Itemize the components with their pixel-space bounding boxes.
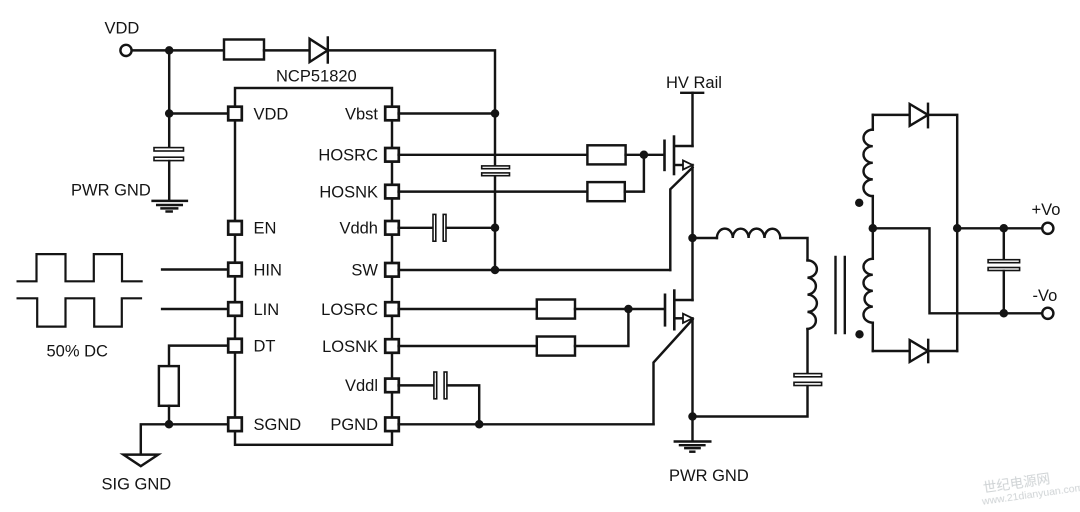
op-amp U1 NCP51820 IC body — [235, 68, 392, 445]
wire top winding to diode — [873, 114, 910, 116]
svg-text:PWR GND: PWR GND — [669, 467, 749, 485]
transformer T1 secondary top winding — [863, 115, 872, 228]
pin HOSNK (right) — [319, 183, 398, 201]
pin SGND (left) — [228, 416, 301, 434]
pin LIN (left) — [228, 301, 279, 319]
wire Q1 source down to Q2 drain — [691, 165, 693, 300]
resistor HOSRC gate — [587, 145, 625, 164]
wire Vbst pin to bootstrap rail — [399, 112, 495, 114]
node -Vo terminal — [1033, 287, 1058, 319]
pin EN (left) — [228, 220, 276, 238]
junction switch-node to inductor — [688, 234, 697, 243]
pin PGND (right) — [330, 416, 398, 434]
wire diode to Vbst rail — [328, 50, 495, 113]
pin HOSRC (right) — [318, 147, 398, 165]
junction VDD node — [165, 46, 174, 55]
junction HS gate node — [640, 151, 649, 160]
capacitor Vddl decoupling — [434, 372, 447, 399]
wire HOSNK pin to resistor — [399, 190, 588, 192]
wire resistor up to LS gate node — [575, 309, 628, 346]
wire LOSNK pin to resistor — [399, 345, 537, 347]
resistor HOSNK gate — [587, 182, 624, 201]
svg-text:PWR GND: PWR GND — [71, 181, 151, 199]
junction cathode bus to +Vo — [953, 224, 962, 233]
wire to LIN pin — [162, 308, 227, 310]
wire cap to PWR GND — [168, 161, 170, 200]
svg-text:SGND: SGND — [254, 416, 302, 434]
wire inductor to primary — [780, 238, 807, 260]
pin Vddh (right) — [339, 220, 398, 238]
node polarity dot top winding — [855, 199, 863, 207]
capacitor VDD bypass — [154, 148, 184, 161]
wire bottom winding to diode — [873, 350, 910, 352]
svg-text:PGND: PGND — [330, 416, 378, 434]
svg-text:HOSNK: HOSNK — [319, 183, 378, 201]
pin LOSNK (right) — [322, 338, 399, 356]
wire DT pin to resistor — [169, 346, 228, 366]
wire HV Rail to Q1 drain — [691, 93, 693, 146]
diode D_bot rectifier — [910, 340, 929, 362]
waveform LIN square wave — [18, 298, 141, 326]
svg-text:VDD: VDD — [105, 20, 140, 38]
svg-text:50% DC: 50% DC — [47, 342, 109, 360]
wire Vbst rail down to cap — [494, 114, 496, 166]
wire diode to cathode bus bottom — [928, 350, 957, 352]
inductor L1 — [717, 229, 780, 238]
wire cap down to SW node — [494, 176, 496, 270]
transistor Q1 high-side FET — [665, 137, 693, 174]
junction LS source / return node — [688, 412, 697, 421]
pin LOSRC (right) — [321, 301, 399, 319]
svg-text:Vbst: Vbst — [345, 105, 378, 123]
capacitor primary DC-block — [794, 374, 822, 386]
wire cap to SW rail — [447, 227, 495, 229]
junction SW node — [491, 266, 500, 275]
wire resistor to gate node — [626, 154, 664, 156]
wire +Vo rail — [957, 227, 1041, 229]
diode D_top rectifier — [910, 104, 928, 127]
svg-text:SW: SW — [351, 262, 378, 280]
wire HOSRC pin to resistor — [399, 154, 588, 156]
resistor LOSNK gate — [537, 337, 575, 356]
ground SIG GND triangle — [102, 455, 172, 494]
svg-text:LOSRC: LOSRC — [321, 301, 378, 319]
svg-text:LIN: LIN — [254, 301, 280, 319]
pin Vddl (right) — [345, 377, 399, 395]
junction Vbst node — [491, 109, 500, 118]
wire VDD node to VDD pin — [169, 112, 227, 114]
wire cap down to PGND rail — [448, 385, 480, 424]
junction Vddh node — [491, 224, 500, 233]
waveform HIN square wave — [18, 254, 142, 281]
junction SGND node — [165, 420, 174, 429]
resistor DT pull-down — [159, 366, 179, 406]
capacitor bootstrap — [482, 166, 510, 176]
pin HIN (left) — [228, 261, 282, 279]
resistor LOSRC gate — [537, 300, 575, 319]
wire Vddl pin to cap — [399, 384, 434, 386]
svg-text:+Vo: +Vo — [1032, 201, 1061, 219]
wire primary to series cap — [806, 329, 808, 373]
wire Vddh pin to cap — [399, 227, 433, 229]
junction LS gate node — [624, 305, 633, 314]
svg-text:HV Rail: HV Rail — [666, 74, 722, 92]
wire Q1 source diagonal to SW feedback — [670, 168, 692, 271]
junction center tap — [869, 224, 878, 233]
transformer T1 primary winding — [808, 260, 817, 329]
svg-text:LOSNK: LOSNK — [322, 338, 378, 356]
wire +Vo rail to cap — [1003, 228, 1005, 259]
node polarity dot bottom winding — [855, 330, 863, 338]
ground PWR GND (left) — [71, 181, 187, 211]
junction output cap top — [1000, 224, 1009, 233]
watermark — [978, 467, 1080, 508]
wire resistor to diode — [264, 49, 310, 51]
wire diode to cathode bus — [928, 115, 957, 351]
capacitor Vddh decoupling — [433, 214, 446, 241]
transistor Q2 low-side FET — [665, 291, 693, 330]
svg-text:NCP51820: NCP51820 — [276, 68, 357, 86]
node HV Rail — [666, 74, 722, 93]
wire resistor up to HS gate node — [625, 155, 644, 192]
junction Vddl-PGND node — [475, 420, 484, 429]
svg-text:HOSRC: HOSRC — [318, 147, 378, 165]
pin VDD (left) — [228, 105, 288, 123]
svg-text:VDD: VDD — [254, 105, 289, 123]
wire resistor to LS gate node — [575, 308, 664, 310]
resistor bootstrap series — [224, 40, 264, 60]
node VDD input terminal — [105, 20, 140, 57]
wire SW pin to switch node — [399, 269, 671, 271]
wire switch node to inductor — [693, 237, 717, 239]
svg-text:SIG GND: SIG GND — [102, 476, 172, 494]
wire PGND pin to LS source return — [399, 423, 654, 425]
wire VDD node down to cap — [168, 50, 170, 147]
wire LOSRC pin to resistor — [399, 308, 537, 310]
node +Vo terminal — [1032, 201, 1061, 234]
pin Vbst (right) — [345, 105, 399, 123]
pin SW (right) — [351, 262, 398, 280]
svg-text:Vddl: Vddl — [345, 377, 378, 395]
wire node to PWR GND symbol — [691, 417, 693, 441]
wire SGND pin to node and to SIG GND — [141, 424, 228, 454]
svg-text:EN: EN — [254, 220, 277, 238]
wire Q2 source down to return node — [691, 318, 693, 416]
svg-text:-Vo: -Vo — [1033, 287, 1058, 305]
svg-text:Vddh: Vddh — [339, 220, 378, 238]
svg-text:DT: DT — [254, 337, 276, 355]
wire center tap to -Vo rail — [873, 228, 1042, 313]
transformer T1 secondary bottom winding — [863, 228, 872, 351]
junction output cap bottom — [1000, 309, 1009, 318]
wire VDD terminal to resistor — [132, 49, 224, 51]
diode bootstrap — [310, 38, 328, 63]
wire Q2 source diagonal to PGND return — [654, 320, 693, 425]
ground PWR GND (power stage) — [669, 442, 749, 485]
wire to HIN pin — [162, 268, 227, 270]
pin DT (left) — [228, 337, 275, 355]
transformer T1 core — [836, 257, 845, 333]
junction VDD pin node — [165, 109, 174, 118]
wire cap to -Vo rail — [1003, 271, 1005, 313]
capacitor output filter — [988, 260, 1020, 271]
wire resistor to SGND node — [168, 406, 170, 425]
svg-text:HIN: HIN — [254, 261, 282, 279]
wire cap to PWR GND return — [693, 386, 808, 416]
